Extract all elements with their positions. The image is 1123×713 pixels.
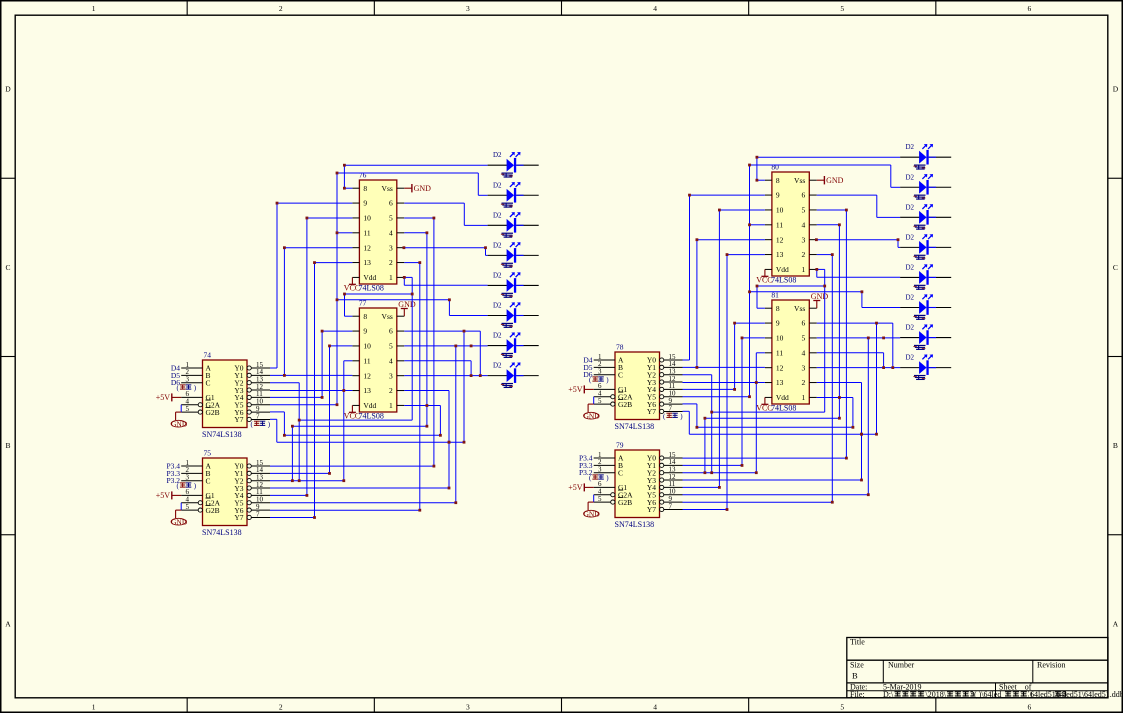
- wire: [404, 330, 480, 332]
- svg-text:D2: D2: [906, 233, 915, 241]
- svg-text:11: 11: [776, 348, 783, 357]
- wire: [817, 224, 840, 226]
- svg-text:74LS08: 74LS08: [359, 284, 384, 293]
- svg-text:3: 3: [466, 703, 470, 712]
- value label blob (LED #7): [501, 353, 513, 358]
- wire: [757, 156, 900, 158]
- wire: [862, 307, 900, 309]
- junction: [433, 217, 436, 220]
- junction: [448, 487, 451, 490]
- ground GND (U81 Vss): [811, 292, 829, 308]
- wire: [683, 396, 750, 398]
- junction: [696, 366, 699, 369]
- svg-text:3: 3: [389, 371, 393, 380]
- wire: [683, 388, 735, 390]
- wire: [343, 361, 345, 481]
- junction: [418, 509, 421, 512]
- wire: [683, 374, 712, 376]
- IC U78 SN74LS138: [594, 352, 683, 420]
- wire: [419, 263, 421, 511]
- ground GND (U77 Vss): [398, 300, 416, 316]
- junction: [882, 366, 885, 369]
- junction: [283, 374, 286, 377]
- wire: [270, 517, 315, 519]
- wire: [750, 164, 891, 166]
- junction: [298, 419, 301, 422]
- wire: [276, 419, 278, 442]
- svg-text:D2: D2: [906, 143, 915, 151]
- wire: [270, 367, 277, 369]
- wire: [891, 186, 900, 188]
- svg-text:7: 7: [256, 510, 260, 518]
- svg-text:1: 1: [92, 4, 96, 13]
- junction: [470, 374, 473, 377]
- power +5V (U78 G1): [568, 385, 593, 394]
- wire: [403, 277, 405, 285]
- net label blob (U74 Y7): [251, 421, 271, 429]
- wire: [283, 248, 285, 376]
- svg-text:1: 1: [389, 273, 393, 282]
- wire: [448, 300, 450, 316]
- svg-text:Size: Size: [850, 661, 864, 670]
- wire: [898, 246, 900, 248]
- wire: [345, 293, 413, 295]
- wire: [726, 255, 728, 510]
- svg-text:Vdd: Vdd: [363, 401, 376, 410]
- wire: [321, 331, 323, 397]
- wire: [270, 465, 434, 467]
- svg-text:10: 10: [776, 334, 784, 343]
- svg-text:GND: GND: [811, 292, 829, 301]
- wire: [455, 346, 457, 503]
- svg-text:Title: Title: [850, 638, 865, 647]
- wire: [711, 375, 713, 473]
- svg-text:Sheet of: Sheet of: [999, 683, 1032, 692]
- net label blob (U78 Y7): [663, 413, 683, 421]
- wire: [404, 360, 471, 362]
- junction: [342, 389, 345, 392]
- svg-text:5: 5: [389, 342, 393, 351]
- wire: [404, 405, 440, 407]
- wire: [464, 224, 487, 226]
- wire: [337, 232, 352, 234]
- wire: [270, 418, 277, 420]
- svg-text:C: C: [206, 476, 211, 485]
- svg-text:4: 4: [653, 4, 657, 13]
- wire: [470, 361, 472, 376]
- junction: [845, 457, 848, 460]
- wire: [448, 391, 450, 489]
- ground GND (U76 Vss): [404, 184, 431, 193]
- wire: [344, 187, 352, 189]
- value label blob (LED #1): [501, 173, 513, 178]
- svg-text:Y7: Y7: [234, 513, 243, 522]
- wire: [270, 374, 352, 376]
- svg-text:74LS08: 74LS08: [359, 412, 384, 421]
- wire: [817, 367, 900, 369]
- wire: [867, 338, 869, 495]
- svg-text:D2: D2: [906, 173, 915, 181]
- svg-text:GND: GND: [584, 510, 601, 519]
- wire: [696, 240, 698, 368]
- junction: [733, 322, 736, 325]
- svg-text:GND: GND: [826, 176, 844, 185]
- svg-text:6: 6: [389, 199, 393, 208]
- svg-text:7: 7: [669, 404, 673, 412]
- junction: [815, 238, 818, 241]
- svg-text:13: 13: [363, 386, 371, 395]
- svg-text:Vss: Vss: [794, 176, 805, 185]
- svg-text:74LS08: 74LS08: [771, 404, 796, 413]
- junction: [756, 179, 759, 182]
- junction: [454, 501, 457, 504]
- svg-text:64led51: 64led51: [1030, 690, 1056, 699]
- wire: [876, 195, 878, 217]
- wire: [404, 375, 487, 377]
- svg-text:G2B: G2B: [206, 506, 220, 515]
- junction: [336, 172, 339, 175]
- junction: [726, 253, 729, 256]
- junction: [454, 345, 457, 348]
- diode LED D2 (#5): [900, 264, 951, 285]
- junction: [418, 261, 421, 264]
- svg-text:3: 3: [389, 243, 393, 252]
- svg-text:1: 1: [389, 401, 393, 410]
- svg-text:Vss: Vss: [794, 304, 805, 313]
- svg-text:Vdd: Vdd: [363, 273, 376, 282]
- svg-text:3: 3: [802, 363, 806, 372]
- junction: [741, 464, 744, 467]
- junction: [291, 479, 294, 482]
- junction: [704, 471, 707, 474]
- junction: [756, 156, 759, 159]
- wire: [817, 397, 853, 399]
- svg-text:3: 3: [466, 4, 470, 13]
- wire: [683, 464, 743, 466]
- svg-text:8: 8: [776, 176, 780, 185]
- wire: [477, 173, 479, 195]
- diode LED D2 (#2): [900, 174, 951, 195]
- wire: [315, 262, 353, 264]
- svg-text:6: 6: [1028, 703, 1032, 712]
- svg-text:GND: GND: [398, 300, 416, 309]
- svg-text:3: 3: [598, 466, 602, 474]
- svg-text:File:: File:: [850, 690, 865, 699]
- IC U75 SN74LS138: [181, 458, 270, 526]
- svg-text:A: A: [1113, 619, 1119, 628]
- junction: [426, 231, 429, 234]
- junction: [867, 493, 870, 496]
- junction: [343, 187, 346, 190]
- junction: [838, 223, 841, 226]
- svg-text:6: 6: [802, 191, 806, 200]
- wire: [292, 425, 427, 427]
- junction: [861, 290, 864, 293]
- junction: [860, 479, 863, 482]
- wire: [719, 209, 765, 211]
- junction: [756, 285, 759, 288]
- junction: [276, 202, 279, 205]
- value label blob (LED #8): [913, 375, 925, 380]
- wire G2A-G2B tie: [593, 495, 595, 502]
- IC U81 74LS08: [765, 300, 817, 404]
- diode LED D2 (#6): [900, 294, 951, 315]
- wire: [284, 434, 440, 436]
- svg-text:B: B: [1113, 441, 1118, 450]
- wire: [463, 331, 465, 442]
- svg-text:9: 9: [363, 199, 367, 208]
- svg-text:4: 4: [653, 703, 657, 712]
- junction: [403, 246, 406, 249]
- wire: [411, 277, 413, 420]
- wire: [876, 323, 878, 434]
- svg-text:Vss: Vss: [382, 312, 393, 321]
- wire: [877, 216, 900, 218]
- wire: [478, 194, 487, 196]
- svg-text:9: 9: [776, 319, 780, 328]
- junction: [336, 298, 339, 301]
- wire: [683, 486, 720, 488]
- junction: [860, 433, 863, 436]
- IC U74 SN74LS138: [181, 360, 270, 428]
- power VCC (U77 Vdd): [344, 405, 384, 420]
- svg-text:3: 3: [802, 235, 806, 244]
- diode LED D2 (#2): [488, 182, 539, 203]
- svg-text:1: 1: [802, 265, 806, 274]
- junction: [306, 217, 309, 220]
- svg-text:SN74LS138: SN74LS138: [615, 520, 655, 529]
- junction: [470, 345, 473, 348]
- value label blob (LED #6): [501, 323, 513, 328]
- wire: [712, 411, 825, 413]
- svg-text:2: 2: [802, 378, 806, 387]
- junction: [755, 471, 758, 474]
- wire: [757, 307, 765, 309]
- svg-text:D2: D2: [493, 241, 502, 249]
- wire: [485, 248, 487, 256]
- wire: [404, 202, 464, 204]
- svg-text:10: 10: [363, 342, 371, 351]
- svg-text:12: 12: [776, 235, 784, 244]
- svg-text:D: D: [5, 85, 11, 94]
- wire: [831, 255, 833, 503]
- svg-text:80: 80: [771, 163, 779, 172]
- svg-text:5: 5: [802, 206, 806, 215]
- wire: [344, 360, 353, 362]
- wire: [838, 225, 840, 418]
- svg-text:3: 3: [186, 376, 190, 384]
- svg-text:78: 78: [616, 343, 624, 352]
- svg-text:D2: D2: [493, 211, 502, 219]
- svg-text:D:\: D:\: [883, 690, 894, 699]
- power VCC (U80 Vdd): [756, 269, 796, 284]
- junction: [426, 404, 429, 407]
- wire: [336, 173, 338, 405]
- wire: [270, 390, 352, 392]
- net label blob (U74 C): [177, 384, 197, 392]
- svg-text:D2: D2: [493, 362, 502, 370]
- junction: [875, 322, 878, 325]
- wire: [426, 233, 428, 426]
- wire: [750, 224, 765, 226]
- svg-text:76: 76: [359, 171, 367, 180]
- wire: [329, 346, 331, 474]
- junction: [875, 433, 878, 436]
- IC U80 74LS08: [765, 172, 817, 276]
- wire: [756, 352, 765, 354]
- junction: [433, 465, 436, 468]
- IC U79 SN74LS138: [594, 450, 683, 518]
- svg-text:5: 5: [186, 503, 190, 511]
- svg-text:D2: D2: [493, 271, 502, 279]
- junction: [463, 441, 466, 444]
- svg-text:79: 79: [616, 441, 624, 450]
- svg-text:2: 2: [802, 250, 806, 259]
- wire: [270, 494, 307, 496]
- wire: [817, 352, 884, 354]
- wire: [897, 240, 899, 248]
- IC U77 74LS08: [352, 308, 404, 412]
- wire: [404, 284, 487, 286]
- wire: [718, 210, 720, 487]
- wire: [817, 322, 893, 324]
- svg-text:12: 12: [363, 371, 371, 380]
- svg-text:5: 5: [802, 334, 806, 343]
- svg-text:2: 2: [279, 4, 283, 13]
- junction: [306, 494, 309, 497]
- junction: [815, 268, 818, 271]
- diode LED D2 (#7): [900, 324, 951, 345]
- svg-text:7: 7: [669, 502, 673, 510]
- wire: [277, 441, 464, 443]
- junction: [733, 388, 736, 391]
- wire: [824, 269, 826, 412]
- value label blob (LED #2): [913, 195, 925, 200]
- svg-text:SN74LS138: SN74LS138: [202, 528, 242, 537]
- svg-text:C: C: [618, 468, 623, 477]
- wire: [683, 359, 690, 361]
- wire: [883, 353, 885, 368]
- junction: [336, 403, 339, 406]
- wire: [817, 268, 825, 270]
- svg-text:D2: D2: [906, 203, 915, 211]
- svg-text:Vdd: Vdd: [776, 393, 789, 402]
- svg-text:6: 6: [389, 327, 393, 336]
- junction: [696, 238, 699, 241]
- junction: [748, 290, 751, 293]
- junction: [882, 337, 885, 340]
- value label blob (LED #6): [913, 315, 925, 320]
- junction: [313, 261, 316, 264]
- svg-text:3: 3: [186, 474, 190, 482]
- junction: [283, 434, 286, 437]
- junction: [748, 395, 751, 398]
- svg-text:5: 5: [389, 214, 393, 223]
- svg-text:D: D: [1113, 85, 1119, 94]
- svg-text:G2B: G2B: [206, 408, 220, 417]
- wire: [757, 179, 765, 181]
- svg-text:A: A: [5, 619, 11, 628]
- wire: [463, 203, 465, 225]
- wire: [404, 262, 420, 264]
- wire: [344, 164, 487, 166]
- value label blob (LED #3): [501, 233, 513, 238]
- wire: [750, 291, 862, 293]
- svg-text:64led51\64led51.ddb: 64led51\64led51.ddb: [1056, 690, 1123, 699]
- wire: [690, 194, 765, 196]
- svg-text:C: C: [206, 378, 211, 387]
- wire: [270, 509, 420, 511]
- wire: [270, 404, 337, 406]
- junction: [831, 253, 834, 256]
- svg-text:8: 8: [776, 304, 780, 313]
- wire: [277, 202, 352, 204]
- svg-text:2: 2: [279, 703, 283, 712]
- wire: [439, 406, 441, 436]
- svg-text:G2B: G2B: [618, 400, 632, 409]
- wire: [270, 396, 322, 398]
- svg-text:4: 4: [389, 356, 393, 365]
- wire G2A-G2B tie: [180, 503, 182, 510]
- value label blob (LED #7): [913, 345, 925, 350]
- svg-text:Y7: Y7: [647, 505, 656, 514]
- svg-text:GND: GND: [171, 518, 188, 527]
- svg-text:4: 4: [802, 220, 806, 229]
- wire: [683, 410, 690, 412]
- wire: [817, 254, 833, 256]
- wire G2A-G2B tie: [593, 397, 595, 404]
- junction: [748, 223, 751, 226]
- junction: [696, 426, 699, 429]
- junction: [448, 441, 451, 444]
- svg-text:B: B: [852, 671, 858, 681]
- wire: [270, 411, 284, 413]
- diode LED D2 (#1): [900, 144, 951, 165]
- junction: [328, 472, 331, 475]
- wire: [683, 494, 869, 496]
- power +5V (U79 G1): [568, 483, 593, 492]
- junction: [298, 479, 301, 482]
- diode LED D2 (#3): [488, 212, 539, 233]
- wire: [817, 194, 877, 196]
- svg-text:10: 10: [363, 214, 371, 223]
- svg-text:9: 9: [776, 191, 780, 200]
- wire: [404, 390, 449, 392]
- wire: [727, 254, 765, 256]
- junction: [313, 516, 316, 519]
- wire: [817, 276, 900, 278]
- wire: [734, 323, 736, 389]
- IC U76 74LS08: [352, 180, 404, 284]
- wire: [683, 509, 728, 511]
- power VCC (U76 Vdd): [344, 277, 384, 292]
- wire: [404, 276, 412, 278]
- junction: [718, 209, 721, 212]
- svg-text:Vdd: Vdd: [776, 265, 789, 274]
- wire: [845, 210, 847, 458]
- svg-text:9: 9: [363, 327, 367, 336]
- wire: [283, 412, 285, 435]
- junction: [838, 396, 841, 399]
- value label blob (LED #5): [913, 285, 925, 290]
- svg-text:5: 5: [598, 495, 602, 503]
- svg-text:+5V: +5V: [568, 385, 583, 394]
- svg-text:D2: D2: [493, 332, 502, 340]
- svg-text:7: 7: [256, 412, 260, 420]
- wire: [683, 403, 697, 405]
- value label blob (LED #4): [501, 263, 513, 268]
- wire: [479, 331, 481, 376]
